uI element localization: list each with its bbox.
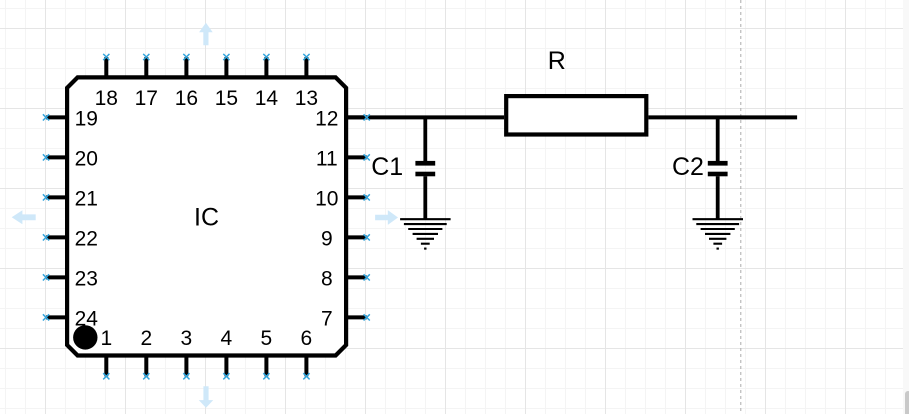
pin 12 (IC right) xyxy=(315,108,370,131)
pin 13 (IC top) xyxy=(295,54,318,110)
svg-text:13: 13 xyxy=(295,87,318,110)
scrollbar thumb xyxy=(905,391,909,414)
pan arrow left xyxy=(12,210,36,224)
pin 20 (IC left) xyxy=(43,148,98,171)
svg-text:5: 5 xyxy=(261,327,273,350)
pin 7 (IC right) xyxy=(321,308,370,331)
pin 3 (IC bottom) xyxy=(181,327,193,380)
pin 23 (IC left) xyxy=(43,268,98,291)
pin 11 (IC right) xyxy=(316,148,370,171)
resistor R xyxy=(506,96,646,134)
pin 1 marker dot xyxy=(73,325,97,349)
pin 9 (IC right) xyxy=(321,228,370,251)
pin 4 (IC bottom) xyxy=(221,327,233,380)
svg-text:8: 8 xyxy=(321,268,333,291)
pin 6 (IC bottom) xyxy=(301,327,313,380)
ground (C2) xyxy=(693,219,744,248)
pin 10 (IC right) xyxy=(315,188,370,211)
pin 17 (IC top) xyxy=(135,54,158,110)
svg-text:19: 19 xyxy=(75,108,98,131)
svg-text:R: R xyxy=(548,47,566,75)
svg-text:17: 17 xyxy=(135,87,158,110)
svg-text:15: 15 xyxy=(215,87,238,110)
svg-text:10: 10 xyxy=(315,188,338,211)
svg-text:C1: C1 xyxy=(371,153,403,181)
svg-text:C2: C2 xyxy=(672,153,704,181)
pin 18 (IC top) xyxy=(95,54,118,110)
pin 16 (IC top) xyxy=(175,54,198,110)
page boundary dashed line xyxy=(740,0,742,414)
pin 14 (IC top) xyxy=(255,54,279,110)
svg-text:21: 21 xyxy=(75,188,98,211)
svg-text:16: 16 xyxy=(175,87,198,110)
wire: resistor R to open end (net with C2) xyxy=(648,115,797,119)
capacitor C1 xyxy=(415,117,435,219)
pin 1 (IC bottom) xyxy=(100,327,112,380)
pin 22 (IC left) xyxy=(43,228,98,251)
pin 8 (IC right) xyxy=(321,268,370,291)
svg-text:2: 2 xyxy=(140,327,152,350)
pin 2 (IC bottom) xyxy=(140,327,152,380)
pin 19 (IC left) xyxy=(43,108,98,131)
IC body xyxy=(67,77,346,355)
pan arrow down xyxy=(199,386,213,408)
svg-text:23: 23 xyxy=(75,268,98,291)
svg-text:12: 12 xyxy=(315,108,338,131)
pin 21 (IC left) xyxy=(43,188,98,211)
scrollbar gutter xyxy=(903,0,909,414)
ground (C1) xyxy=(400,219,451,248)
svg-text:14: 14 xyxy=(255,87,279,110)
svg-text:4: 4 xyxy=(221,327,233,350)
pan arrow right xyxy=(375,210,398,225)
pin 24 (IC left) xyxy=(43,308,98,331)
svg-text:7: 7 xyxy=(321,308,333,331)
svg-text:11: 11 xyxy=(316,148,338,171)
svg-text:1: 1 xyxy=(100,327,112,350)
svg-text:9: 9 xyxy=(321,228,333,251)
svg-text:6: 6 xyxy=(301,327,313,350)
svg-text:IC: IC xyxy=(194,204,219,232)
svg-text:3: 3 xyxy=(181,327,193,350)
pin 15 (IC top) xyxy=(215,54,238,110)
pan arrow up xyxy=(199,23,213,46)
capacitor C2 xyxy=(708,117,728,219)
wire: IC pin 12 to resistor R (net with C1) xyxy=(346,115,504,119)
svg-text:18: 18 xyxy=(95,87,118,110)
svg-text:22: 22 xyxy=(75,228,98,251)
svg-text:20: 20 xyxy=(75,148,98,171)
pin 5 (IC bottom) xyxy=(261,327,273,380)
